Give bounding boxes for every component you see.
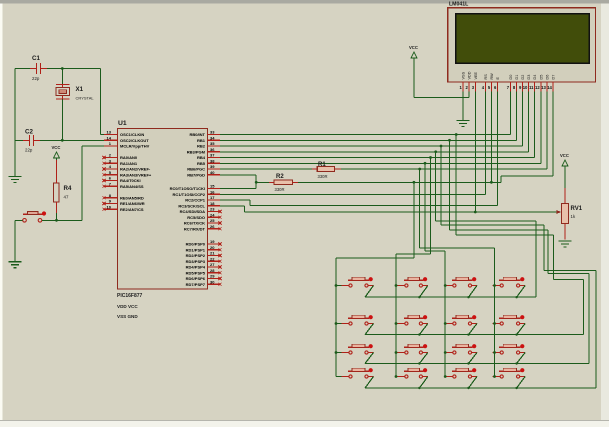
- svg-text:RA2/AN2/VREF-: RA2/AN2/VREF-: [120, 167, 151, 172]
- svg-text:29: 29: [210, 274, 215, 279]
- svg-text:U1: U1: [118, 120, 127, 127]
- svg-text:10: 10: [107, 204, 112, 209]
- svg-text:RD6/PSP6: RD6/PSP6: [186, 276, 206, 281]
- svg-text:24: 24: [210, 212, 215, 217]
- svg-text:16: 16: [210, 189, 215, 194]
- svg-text:15: 15: [210, 184, 215, 189]
- svg-text:330R: 330R: [318, 174, 328, 179]
- svg-text:VEE: VEE: [474, 71, 478, 79]
- svg-text:1k: 1k: [571, 214, 576, 219]
- svg-text:RA1/AN1: RA1/AN1: [120, 161, 138, 166]
- svg-text:30: 30: [210, 279, 215, 284]
- svg-text:RB5: RB5: [197, 161, 206, 166]
- svg-text:33: 33: [210, 130, 215, 135]
- svg-text:25: 25: [210, 218, 215, 223]
- svg-text:RB0/INT: RB0/INT: [189, 132, 205, 137]
- svg-text:RC1/T1OSI/CCP2: RC1/T1OSI/CCP2: [173, 192, 206, 197]
- svg-text:RE0/AN5/RD: RE0/AN5/RD: [120, 195, 144, 200]
- svg-text:RA5/AN4/SS: RA5/AN4/SS: [120, 184, 144, 189]
- svg-text:RC5/SDO: RC5/SDO: [187, 215, 205, 220]
- svg-text:OSC2/CLKOUT: OSC2/CLKOUT: [120, 138, 149, 143]
- svg-text:34: 34: [210, 135, 215, 140]
- svg-text:13: 13: [541, 85, 546, 90]
- svg-text:14: 14: [107, 135, 112, 140]
- svg-text:D0: D0: [509, 75, 513, 80]
- svg-text:RE1/AN6/WR: RE1/AN6/WR: [120, 201, 145, 206]
- svg-text:PIC16F877: PIC16F877: [117, 293, 143, 299]
- svg-text:RD3/PSP3: RD3/PSP3: [186, 259, 206, 264]
- svg-text:RC3/SCK/SCL: RC3/SCK/SCL: [178, 203, 205, 208]
- svg-text:22p: 22p: [25, 148, 33, 153]
- svg-text:RD2/PSP2: RD2/PSP2: [186, 253, 206, 258]
- svg-text:C1: C1: [32, 55, 40, 62]
- svg-text:VSS: VSS: [462, 71, 466, 79]
- svg-text:47: 47: [64, 195, 69, 200]
- svg-text:RD4/PSP4: RD4/PSP4: [186, 265, 206, 270]
- svg-text:RE2/AN7/CS: RE2/AN7/CS: [120, 207, 144, 212]
- svg-text:RD0/PSP0: RD0/PSP0: [186, 242, 206, 247]
- svg-text:23: 23: [210, 207, 215, 212]
- svg-text:RB4: RB4: [197, 155, 206, 160]
- svg-text:C2: C2: [25, 129, 33, 136]
- svg-text:12: 12: [535, 85, 540, 90]
- svg-text:19: 19: [210, 239, 215, 244]
- svg-text:26: 26: [210, 224, 215, 229]
- svg-text:D6: D6: [546, 75, 550, 80]
- svg-text:13: 13: [107, 130, 112, 135]
- svg-text:CRYSTAL: CRYSTAL: [76, 96, 95, 101]
- svg-text:VCC: VCC: [560, 153, 569, 158]
- svg-text:10: 10: [523, 85, 528, 90]
- svg-text:27: 27: [210, 262, 215, 267]
- svg-text:RD5/PSP5: RD5/PSP5: [186, 270, 206, 275]
- svg-text:RW: RW: [490, 73, 494, 80]
- svg-text:40: 40: [210, 170, 215, 175]
- svg-text:RB7/PGD: RB7/PGD: [187, 172, 205, 177]
- svg-text:RS: RS: [484, 74, 488, 80]
- svg-text:VDD VCC: VDD VCC: [117, 304, 138, 309]
- svg-text:R1: R1: [318, 162, 326, 168]
- svg-text:RA3/AN3/VREF+: RA3/AN3/VREF+: [120, 172, 152, 177]
- svg-text:VDD: VDD: [468, 71, 472, 79]
- svg-text:RB1: RB1: [197, 138, 206, 143]
- svg-text:D2: D2: [521, 75, 525, 80]
- svg-text:RC0/T1OSO/T1CKI: RC0/T1OSO/T1CKI: [170, 186, 205, 191]
- svg-text:22p: 22p: [32, 76, 40, 81]
- svg-text:17: 17: [210, 195, 215, 200]
- svg-text:11: 11: [529, 85, 534, 90]
- svg-text:RD7/PSP7: RD7/PSP7: [186, 282, 206, 287]
- svg-text:18: 18: [210, 201, 215, 206]
- svg-text:RC2/CCP1: RC2/CCP1: [185, 198, 206, 203]
- svg-text:37: 37: [210, 153, 215, 158]
- svg-text:RB2: RB2: [197, 144, 206, 149]
- svg-text:OSC1/CLKIN: OSC1/CLKIN: [120, 132, 144, 137]
- svg-text:MCLR/Vpp/THV: MCLR/Vpp/THV: [120, 144, 150, 149]
- svg-text:RA4/T0CKI: RA4/T0CKI: [120, 178, 141, 183]
- svg-text:39: 39: [210, 164, 215, 169]
- svg-text:D7: D7: [552, 75, 556, 80]
- svg-text:RD1/PSP1: RD1/PSP1: [186, 247, 206, 252]
- svg-text:D3: D3: [527, 75, 531, 80]
- svg-text:28: 28: [210, 268, 215, 273]
- svg-text:VCC: VCC: [409, 45, 418, 50]
- svg-text:X1: X1: [76, 86, 84, 93]
- svg-text:RV1: RV1: [571, 206, 583, 212]
- svg-text:VCC: VCC: [52, 145, 61, 150]
- svg-text:14: 14: [547, 85, 552, 90]
- svg-text:RB6/PGC: RB6/PGC: [187, 167, 205, 172]
- svg-text:38: 38: [210, 158, 215, 163]
- svg-text:R4: R4: [64, 185, 72, 192]
- svg-text:RB3/PGM: RB3/PGM: [187, 149, 206, 154]
- svg-text:RA0/AN0: RA0/AN0: [120, 155, 138, 160]
- svg-text:LM041L: LM041L: [449, 2, 469, 8]
- svg-text:36: 36: [210, 147, 215, 152]
- svg-text:20: 20: [210, 245, 215, 250]
- svg-text:RC4/SDI/SDA: RC4/SDI/SDA: [180, 209, 205, 214]
- svg-text:RC7/RX/DT: RC7/RX/DT: [184, 226, 206, 231]
- svg-text:21: 21: [210, 251, 215, 256]
- svg-text:D4: D4: [533, 75, 537, 80]
- svg-text:D1: D1: [515, 75, 519, 80]
- svg-text:D5: D5: [539, 75, 543, 80]
- svg-text:35: 35: [210, 141, 215, 146]
- svg-text:RC6/TX/CK: RC6/TX/CK: [184, 221, 205, 226]
- svg-text:22: 22: [210, 256, 215, 261]
- svg-text:330R: 330R: [275, 187, 285, 192]
- svg-text:VSS GND: VSS GND: [117, 314, 138, 319]
- svg-text:R2: R2: [276, 174, 284, 180]
